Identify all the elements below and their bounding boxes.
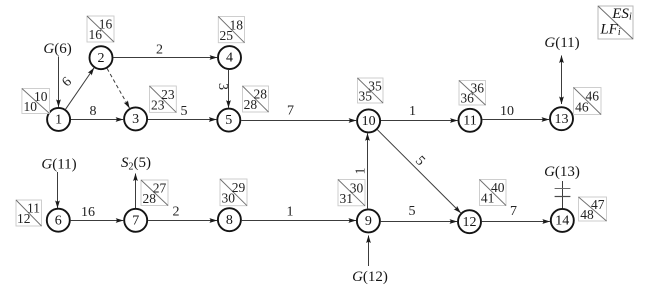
- svg-text:12: 12: [17, 211, 31, 226]
- ES/LF box of node 6 (ES=11, LF=12): [16, 200, 42, 226]
- node G(6) start arrow into node 1: [43, 41, 71, 107]
- node G(13) link with double tick into node 14: [544, 164, 580, 208]
- svg-text:8: 8: [90, 104, 97, 119]
- svg-text:5: 5: [225, 113, 232, 128]
- svg-text:1: 1: [287, 205, 294, 220]
- svg-text:G(11): G(11): [41, 157, 76, 173]
- svg-text:16: 16: [88, 27, 102, 42]
- wire edge 3-5: [148, 104, 216, 120]
- svg-text:30: 30: [221, 191, 235, 206]
- ES/LF box of node 11 (ES=36, LF=36): [459, 81, 486, 106]
- node 1: [47, 108, 70, 131]
- svg-text:28: 28: [244, 97, 258, 112]
- wire edge 10-11: [381, 104, 458, 120]
- svg-text:5: 5: [181, 104, 188, 119]
- node G(11) double arrow at node 13: [544, 35, 579, 104]
- svg-text:LFi: LFi: [599, 22, 621, 38]
- svg-text:7: 7: [510, 204, 517, 219]
- svg-text:25: 25: [220, 28, 234, 43]
- wire edge 2-3 (dashed dummy): [107, 69, 129, 109]
- ES/LF box of node 5 (ES=28, LF=28): [243, 86, 269, 112]
- svg-text:11: 11: [463, 113, 476, 128]
- node 9: [357, 209, 380, 232]
- svg-text:7: 7: [287, 104, 294, 119]
- node S2(5) arrow out of node 7: [121, 155, 151, 208]
- wire edge 11-13: [482, 104, 549, 119]
- ES/LF box of node 9 (ES=30, LF=31): [338, 180, 365, 206]
- ES/LF box of node 1 (ES=10, LF=10): [22, 89, 50, 115]
- svg-text:3: 3: [132, 112, 139, 127]
- svg-text:S2(5): S2(5): [121, 155, 151, 173]
- ES/LF box of node 8 (ES=29, LF=30): [220, 179, 247, 206]
- node 11: [459, 109, 482, 132]
- svg-text:5: 5: [409, 204, 416, 219]
- svg-text:41: 41: [481, 191, 495, 206]
- svg-text:28: 28: [142, 191, 156, 206]
- node 10: [357, 109, 380, 132]
- svg-text:14: 14: [555, 214, 569, 229]
- svg-text:10: 10: [24, 99, 38, 114]
- svg-text:2: 2: [173, 204, 180, 219]
- svg-text:8: 8: [226, 213, 233, 228]
- svg-text:23: 23: [151, 98, 165, 113]
- ES/LF box of node 13 (ES=46, LF=46): [574, 88, 602, 115]
- node 6: [47, 209, 70, 232]
- node 14: [551, 209, 574, 232]
- node G(12) start arrow into node 9: [352, 236, 388, 286]
- wire edge 6-7: [71, 205, 124, 220]
- wire edge 5-10: [241, 104, 356, 121]
- wire edge 4-5: [215, 70, 230, 108]
- wire edge 1-2: [59, 68, 94, 109]
- svg-text:9: 9: [365, 214, 372, 229]
- svg-text:ESi: ESi: [611, 6, 632, 22]
- ES/LF box of node 7 (ES=27, LF=28): [141, 180, 168, 206]
- wire edge 8-9: [242, 205, 356, 221]
- svg-text:48: 48: [580, 207, 594, 222]
- svg-text:2: 2: [156, 43, 163, 58]
- wire edge 2-4: [113, 43, 217, 58]
- svg-text:35: 35: [359, 89, 373, 104]
- node 8: [218, 208, 241, 231]
- node 3: [124, 107, 147, 130]
- svg-text:7: 7: [132, 213, 139, 228]
- node 5: [217, 109, 240, 132]
- svg-text:4: 4: [226, 51, 233, 66]
- ES/LF box of node 12 (ES=40, LF=41): [480, 180, 507, 206]
- node 12: [458, 210, 481, 233]
- wire edge 10-12: [377, 130, 460, 213]
- wire edge 9-10: [353, 133, 368, 208]
- svg-text:1: 1: [353, 168, 368, 175]
- svg-text:G(13): G(13): [544, 164, 580, 180]
- svg-text:31: 31: [339, 191, 353, 206]
- svg-text:1: 1: [55, 113, 62, 128]
- svg-text:2: 2: [98, 51, 105, 66]
- svg-text:12: 12: [463, 215, 477, 230]
- svg-text:36: 36: [460, 91, 474, 106]
- wire edge 12-14: [482, 204, 550, 222]
- wire edge 1-3: [71, 104, 123, 120]
- svg-text:G(11): G(11): [544, 35, 579, 51]
- svg-text:10: 10: [500, 104, 514, 119]
- ES/LF box of node 2 (ES=16, LF=16): [87, 16, 114, 42]
- svg-text:1: 1: [409, 104, 416, 119]
- ES/LF box of node 14 (ES=47, LF=48): [579, 197, 607, 222]
- ES/LF box of node 4 (ES=18, LF=25): [218, 17, 244, 43]
- wire edge 9-12: [381, 204, 457, 222]
- wire edge 7-8: [148, 204, 217, 220]
- node 7: [124, 209, 147, 232]
- svg-text:16: 16: [81, 205, 95, 220]
- node 2: [90, 46, 113, 69]
- ES/LF box of node 10 (ES=35, LF=35): [358, 78, 384, 104]
- svg-text:46: 46: [575, 99, 589, 114]
- svg-text:G(6): G(6): [43, 41, 71, 57]
- svg-text:3: 3: [215, 83, 230, 90]
- node 4: [218, 46, 241, 69]
- node 13: [550, 107, 573, 130]
- svg-text:10: 10: [362, 114, 376, 129]
- svg-text:G(12): G(12): [352, 269, 388, 285]
- legend box ESi / LFi: [598, 6, 633, 39]
- svg-text:13: 13: [555, 112, 569, 127]
- svg-text:6: 6: [55, 213, 62, 228]
- node G(11) start arrow into node 6: [41, 157, 76, 208]
- ES/LF box of node 3 (ES=23, LF=23): [150, 86, 177, 113]
